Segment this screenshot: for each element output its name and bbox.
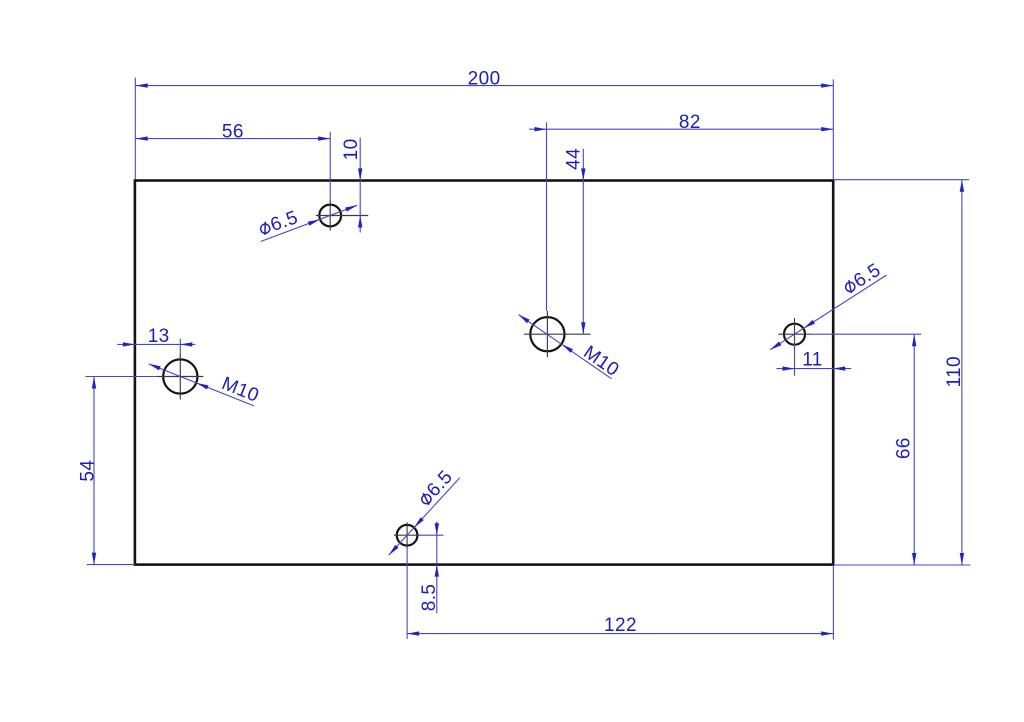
svg-text:110: 110 <box>944 356 965 388</box>
svg-text:11: 11 <box>802 350 823 371</box>
svg-text:56: 56 <box>222 121 244 142</box>
svg-text:10: 10 <box>341 138 362 160</box>
svg-text:44: 44 <box>563 148 584 170</box>
svg-text:122: 122 <box>604 615 637 636</box>
svg-text:200: 200 <box>468 69 501 90</box>
svg-text:54: 54 <box>78 460 99 482</box>
svg-text:82: 82 <box>679 112 701 133</box>
svg-text:8.5: 8.5 <box>419 584 440 612</box>
svg-text:66: 66 <box>894 437 915 459</box>
svg-text:13: 13 <box>148 326 170 347</box>
